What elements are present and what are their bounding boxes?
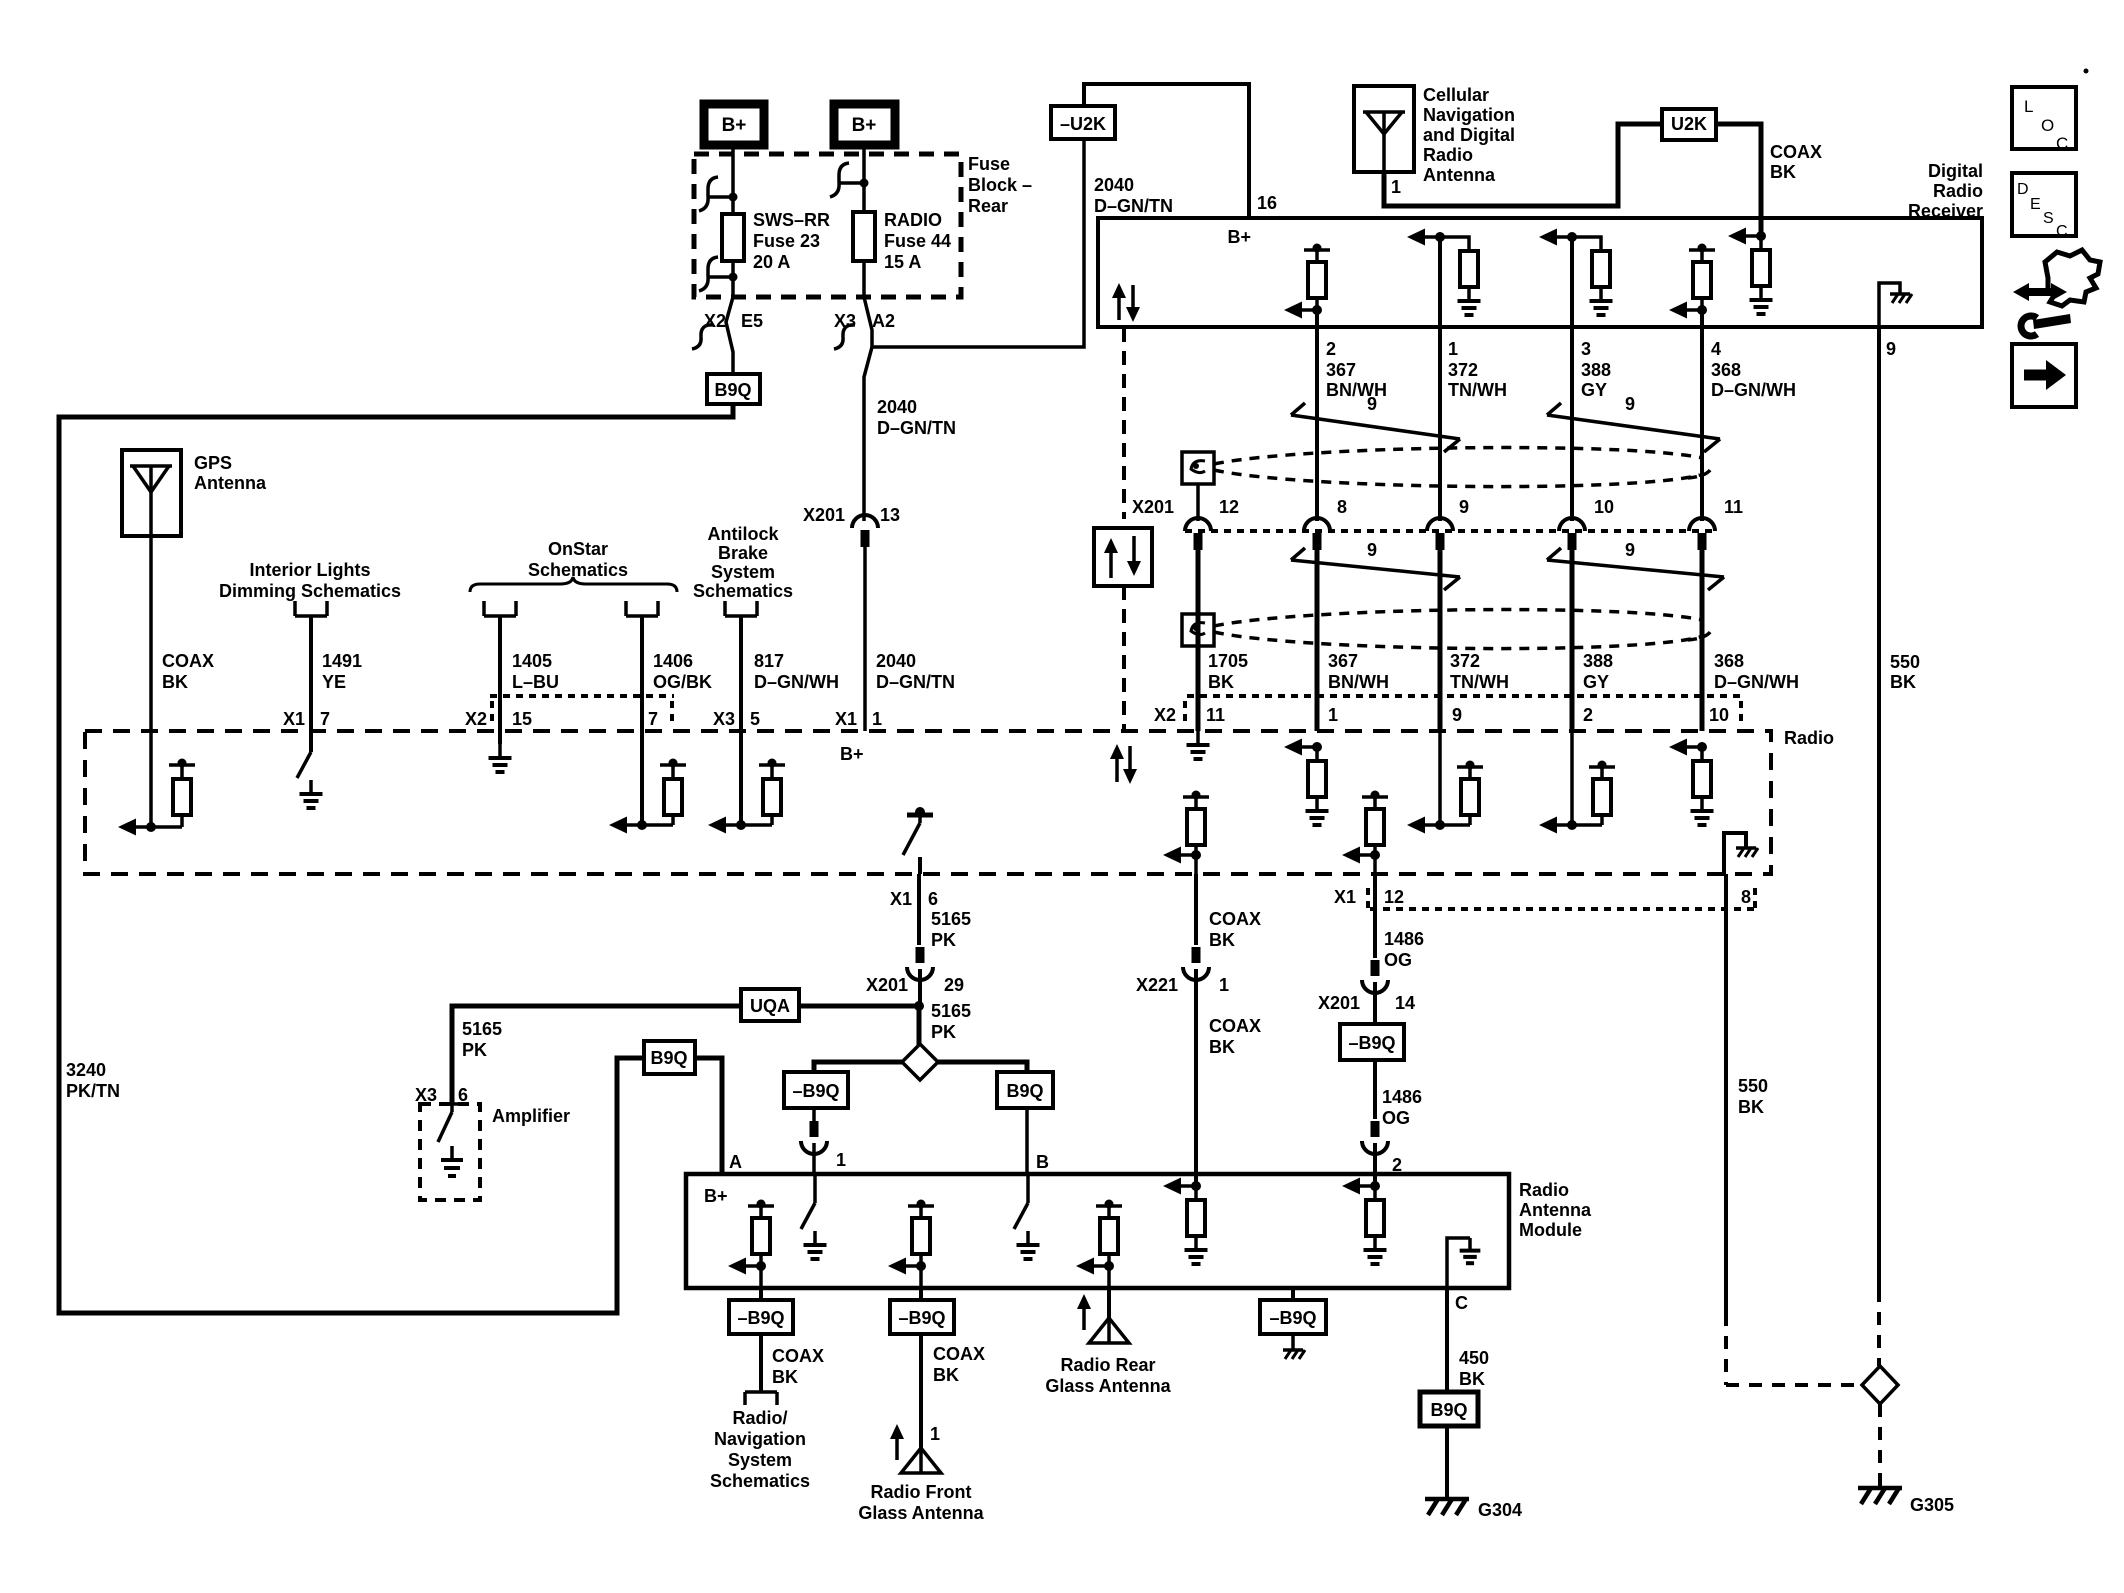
splice diamond G305	[1862, 1366, 1898, 1404]
svg-text:450: 450	[1459, 1348, 1489, 1368]
module resistor rear-glass	[1076, 1200, 1122, 1289]
module switch 1	[801, 1174, 827, 1259]
wire coax radio to X221	[1194, 874, 1198, 945]
wire A2 down to X201-13	[864, 297, 872, 521]
svg-text:D: D	[2017, 181, 2029, 198]
label Radio Navigation System Schematics	[710, 1408, 810, 1491]
receiver internal ground pin 9	[1879, 283, 1912, 327]
X2 connector ticks (left)	[490, 696, 674, 722]
label B+ inside module	[704, 1186, 728, 1206]
svg-text:372: 372	[1450, 651, 1480, 671]
svg-text:Radio/: Radio/	[732, 1408, 787, 1428]
svg-text:B+: B+	[1227, 227, 1251, 247]
svg-text:1491: 1491	[322, 651, 362, 671]
svg-text:COAX: COAX	[772, 1346, 824, 1366]
module resistor front-glass	[888, 1200, 934, 1289]
fuse block rear dashed outline	[694, 154, 961, 297]
svg-text:Radio Rear: Radio Rear	[1060, 1355, 1155, 1375]
svg-text:and Digital: and Digital	[1423, 125, 1515, 145]
svg-text:A2: A2	[872, 311, 895, 331]
svg-text:550: 550	[1738, 1076, 1768, 1096]
label X1 / 1 pins at radio	[835, 709, 882, 729]
svg-text:Schematics: Schematics	[693, 581, 793, 601]
372 termination inside radio	[1407, 731, 1483, 834]
label pin 16	[1257, 193, 1277, 213]
svg-text:1486: 1486	[1382, 1087, 1422, 1107]
label B+ net inside radio	[840, 744, 864, 764]
receiver pin2 internal resistor	[1284, 244, 1330, 319]
svg-text:Amplifier: Amplifier	[492, 1106, 570, 1126]
svg-text:Rear: Rear	[968, 196, 1008, 216]
label 1491 YE	[322, 651, 362, 692]
label 1406 OG/BK	[653, 651, 712, 692]
radio front glass antenna symbol	[901, 1448, 941, 1473]
svg-text:Fuse: Fuse	[968, 154, 1010, 174]
wire B+2 to fuse 44	[862, 145, 866, 212]
wire fuse 44 to X3 A2	[862, 261, 866, 297]
svg-text:9: 9	[1625, 540, 1635, 560]
label Antilock Brake System Schematics	[693, 524, 793, 601]
wire 817 D-GN/WH	[739, 616, 743, 825]
label 372 TN/WH	[1450, 651, 1509, 692]
svg-text:COAX: COAX	[1209, 1016, 1261, 1036]
svg-text:D–GN/WH: D–GN/WH	[754, 672, 839, 692]
svg-text:B9Q: B9Q	[1430, 1400, 1467, 1420]
svg-text:COAX: COAX	[1770, 142, 1822, 162]
label X201 connector row	[1132, 497, 1174, 517]
label X3 / A2 pins	[834, 311, 895, 331]
label COAX BK (GPS)	[162, 651, 214, 692]
net tag B9Q (splice right)	[997, 1072, 1053, 1108]
loc/desc wrench icon	[2013, 250, 2100, 336]
svg-text:10: 10	[1594, 497, 1614, 517]
wire -B9Q nav coax	[759, 1334, 763, 1392]
svg-text:X201: X201	[866, 975, 908, 995]
svg-text:Brake: Brake	[718, 543, 768, 563]
receiver pin3 internal circuit	[1539, 229, 1613, 316]
svg-text:BK: BK	[162, 672, 188, 692]
wire X201-29 to junction	[914, 969, 924, 1011]
coax wire antenna to U2K	[1384, 124, 1662, 206]
label X2 / E5 pins	[704, 311, 763, 331]
wire X2 E5 to B9Q box	[692, 297, 733, 374]
svg-text:GPS: GPS	[194, 453, 232, 473]
wire -U2K up to receiver pin 16	[1084, 84, 1249, 218]
svg-text:5165: 5165	[462, 1019, 502, 1039]
label 817 D-GN/WH	[754, 651, 839, 692]
wire X201-13 to radio X1-1	[863, 547, 867, 731]
svg-text:D–GN/TN: D–GN/TN	[1094, 196, 1173, 216]
label X3 / 5 pins	[713, 709, 760, 729]
label pin 2 367 BN/WH	[1326, 339, 1387, 400]
wire 1405 L-BU	[498, 616, 502, 744]
svg-text:Navigation: Navigation	[1423, 105, 1515, 125]
svg-text:Antenna: Antenna	[1519, 1200, 1592, 1220]
svg-text:O: O	[2041, 116, 2054, 135]
svg-text:BK: BK	[1209, 1037, 1235, 1057]
svg-text:X201: X201	[1318, 993, 1360, 1013]
wire module to -B9Q (front glass)	[919, 1288, 923, 1300]
svg-text:BN/WH: BN/WH	[1326, 380, 1387, 400]
svg-text:SWS–RR: SWS–RR	[753, 210, 830, 230]
wire B9Q to module pin A	[695, 1058, 722, 1174]
wire X221 to module	[1194, 969, 1198, 1186]
label X1 / 7 pins	[283, 709, 330, 729]
wire UQA to X201-29 junction	[799, 1004, 919, 1009]
offpage bracket 1406	[626, 601, 658, 616]
svg-text:L–BU: L–BU	[512, 672, 559, 692]
svg-text:5165: 5165	[931, 1001, 971, 1021]
svg-text:B9Q: B9Q	[714, 380, 751, 400]
svg-text:X2: X2	[704, 311, 726, 331]
svg-text:1: 1	[930, 1424, 940, 1444]
updown arrows inside receiver	[1112, 283, 1140, 322]
svg-text:C: C	[2056, 134, 2068, 153]
LOC icon box	[2012, 87, 2076, 153]
svg-text:12: 12	[1384, 887, 1404, 907]
label Radio Antenna Module	[1519, 1180, 1592, 1240]
connector X201 pin 11	[1689, 497, 1743, 550]
wire UQA junction down to splice	[917, 1006, 922, 1045]
svg-text:Glass Antenna: Glass Antenna	[858, 1503, 984, 1523]
radio dashed box	[85, 731, 1771, 874]
svg-text:368: 368	[1714, 651, 1744, 671]
wire 368 to radio X2-10	[1700, 549, 1705, 731]
label pin 7 (1406)	[648, 709, 658, 729]
svg-text:Glass Antenna: Glass Antenna	[1045, 1376, 1171, 1396]
hook clip below A2	[834, 325, 855, 349]
GPS coax termination in radio	[118, 759, 195, 836]
svg-text:5165: 5165	[931, 909, 971, 929]
label 450 BK	[1459, 1348, 1489, 1389]
label 1486 OG (upper)	[1384, 929, 1424, 970]
label pin 4 368 D-GN/WH	[1711, 339, 1796, 400]
svg-text:TN/WH: TN/WH	[1448, 380, 1507, 400]
hook clip above fuse 44	[830, 163, 869, 197]
svg-text:2: 2	[1583, 705, 1593, 725]
X201 connector dashed line	[1185, 529, 1715, 533]
svg-text:20 A: 20 A	[753, 252, 790, 272]
svg-text:367: 367	[1328, 651, 1358, 671]
wire 388 receiver pin3 to X201-10	[1570, 237, 1574, 521]
svg-text:Radio Front: Radio Front	[871, 1482, 972, 1502]
svg-text:System: System	[728, 1450, 792, 1470]
receiver pin4 internal resistor	[1669, 244, 1715, 319]
1406 termination in radio	[609, 759, 686, 834]
circuit tag B9Q under fuse 23	[707, 374, 760, 404]
wire B9Q to G304	[1445, 1426, 1449, 1497]
svg-text:Schematics: Schematics	[528, 560, 628, 580]
offpage bracket interior lights	[295, 601, 327, 616]
svg-text:–B9Q: –B9Q	[792, 1081, 839, 1101]
svg-text:B+: B+	[840, 744, 864, 764]
svg-text:L: L	[2024, 97, 2033, 116]
label Digital Radio Receiver	[1908, 161, 1983, 221]
svg-text:G305: G305	[1910, 1495, 1954, 1515]
svg-text:PK: PK	[462, 1040, 487, 1060]
label Radio Front Glass Antenna	[858, 1482, 984, 1523]
wire splice left to -B9Q	[814, 1062, 902, 1072]
wire -B9Q to module A-side	[812, 1143, 816, 1174]
fuse F44 RADIO	[853, 212, 875, 261]
svg-text:S: S	[2043, 210, 2054, 227]
svg-text:Radio: Radio	[1933, 181, 1983, 201]
svg-text:1405: 1405	[512, 651, 552, 671]
svg-text:Radio: Radio	[1423, 145, 1473, 165]
svg-text:817: 817	[754, 651, 784, 671]
wire B+1 to fuse 23	[731, 145, 735, 214]
label X1 / 6 pins	[890, 889, 938, 909]
svg-text:16: 16	[1257, 193, 1277, 213]
label 388 GY	[1583, 651, 1613, 692]
shield oval lower	[1214, 610, 1712, 649]
label COAX BK (top right)	[1770, 142, 1822, 182]
svg-text:2: 2	[1326, 339, 1336, 359]
connector X201 pin 8	[1304, 497, 1347, 550]
hook clip above fuse 23	[699, 177, 738, 211]
wire 388 to radio X2-2	[1570, 549, 1575, 731]
svg-text:UQA: UQA	[750, 996, 790, 1016]
connector pin 1 below -B9Q	[801, 1108, 846, 1170]
svg-text:GY: GY	[1581, 380, 1607, 400]
svg-text:B+: B+	[722, 115, 747, 136]
hook clip below fuse 23	[699, 257, 738, 291]
shield drain box upper	[1182, 452, 1214, 484]
label Interior Lights Dimming Schematics	[219, 560, 401, 601]
svg-text:372: 372	[1448, 360, 1478, 380]
label B pin	[1036, 1152, 1049, 1172]
svg-text:System: System	[711, 562, 775, 582]
svg-text:YE: YE	[322, 672, 346, 692]
svg-text:3240: 3240	[66, 1060, 106, 1080]
net tag U2K box	[1662, 109, 1716, 140]
svg-text:1: 1	[1448, 339, 1458, 359]
DESC icon box	[2012, 173, 2076, 240]
svg-text:29: 29	[944, 975, 964, 995]
svg-text:15 A: 15 A	[884, 252, 921, 272]
svg-text:BK: BK	[1209, 930, 1235, 950]
svg-text:Module: Module	[1519, 1220, 1582, 1240]
label Radio Rear Glass Antenna	[1045, 1355, 1171, 1396]
svg-text:–B9Q: –B9Q	[1348, 1033, 1395, 1053]
wire 1705 BK drain to radio X2-11	[1196, 549, 1201, 731]
svg-text:388: 388	[1583, 651, 1613, 671]
svg-text:9: 9	[1452, 705, 1462, 725]
up arrow rear antenna	[1077, 1294, 1091, 1330]
svg-text:7: 7	[648, 709, 658, 729]
coax wire U2K to receiver	[1716, 124, 1761, 232]
amplifier dashed box	[420, 1104, 480, 1200]
label 2040 D-GN/TN (above radio)	[876, 651, 955, 692]
svg-text:11: 11	[1206, 705, 1225, 725]
svg-text:9: 9	[1625, 394, 1635, 414]
svg-text:B+: B+	[852, 115, 877, 136]
svg-text:Cellular: Cellular	[1423, 85, 1489, 105]
svg-text:U2K: U2K	[1671, 114, 1707, 134]
net tag UQA box	[741, 989, 799, 1021]
svg-text:5: 5	[750, 709, 760, 729]
svg-text:GY: GY	[1583, 672, 1609, 692]
connector X201 pin 29	[866, 947, 964, 995]
svg-text:COAX: COAX	[162, 651, 214, 671]
svg-text:G304: G304	[1478, 1500, 1522, 1520]
svg-text:Radio: Radio	[1784, 728, 1834, 748]
svg-text:OnStar: OnStar	[548, 539, 608, 559]
connector X201 pin 10	[1559, 497, 1614, 550]
svg-text:14: 14	[1395, 993, 1415, 1013]
receiver pin1 internal circuit	[1407, 229, 1481, 316]
svg-text:BK: BK	[1208, 672, 1234, 692]
svg-text:11: 11	[1724, 497, 1743, 517]
shield drain box lower	[1182, 614, 1214, 646]
brace OnStar	[470, 577, 677, 592]
label X2 row pins	[1154, 705, 1729, 725]
svg-text:550: 550	[1890, 652, 1920, 672]
svg-text:Navigation: Navigation	[714, 1429, 806, 1449]
wire X1-6 5165 PK	[917, 874, 921, 945]
GPS antenna box	[122, 450, 181, 536]
svg-text:–B9Q: –B9Q	[737, 1308, 784, 1328]
net tag -B9Q (nav output)	[729, 1300, 793, 1334]
label 1486 OG (lower)	[1382, 1087, 1422, 1128]
wire branch A2 to -U2K	[872, 139, 1084, 347]
svg-text:B9Q: B9Q	[1006, 1081, 1043, 1101]
wire module to -B9Q (nav)	[759, 1288, 763, 1300]
svg-text:1: 1	[1328, 705, 1338, 725]
svg-text:PK: PK	[931, 930, 956, 950]
svg-text:–B9Q: –B9Q	[1269, 1308, 1316, 1328]
module coax termination	[1163, 1178, 1208, 1265]
coax output resistor inside radio	[1163, 791, 1209, 875]
svg-text:PK/TN: PK/TN	[66, 1081, 120, 1101]
label COAX BK (upper)	[1209, 909, 1261, 950]
817 termination in radio	[708, 759, 785, 834]
svg-text:1705: 1705	[1208, 651, 1248, 671]
svg-text:1: 1	[872, 709, 882, 729]
connector X201 pin 13	[803, 505, 900, 547]
label receiver pin 9	[1886, 339, 1896, 359]
connector X2 row dashes	[1185, 696, 1741, 722]
label 550 BK (right)	[1890, 652, 1920, 692]
label 3240 PK/TN	[66, 1060, 120, 1101]
wire shield box to X201-12	[1196, 484, 1200, 521]
wire module to -B9Q (shield)	[1291, 1288, 1295, 1300]
wire B9Q to module B pin	[1025, 1108, 1029, 1174]
svg-text:Schematics: Schematics	[710, 1471, 810, 1491]
wire splice right to B9Q	[938, 1062, 1027, 1072]
twist symbol 9 (right, row1)	[1547, 394, 1720, 452]
svg-text:1486: 1486	[1384, 929, 1424, 949]
svg-text:E5: E5	[741, 311, 763, 331]
label 1405 L-BU	[512, 651, 559, 692]
label GPS Antenna	[194, 453, 267, 493]
svg-text:12: 12	[1219, 497, 1239, 517]
wire B9Q tag down-left 3240 PK/TN run	[59, 404, 733, 1313]
module internal ground C	[1447, 1238, 1480, 1288]
label pin 1 (front antenna)	[930, 1424, 940, 1444]
svg-text:1: 1	[836, 1150, 846, 1170]
label 5165 PK (lower)	[931, 1001, 971, 1042]
svg-text:C: C	[2056, 223, 2068, 240]
label SWS-RR Fuse 23 20 A	[753, 210, 830, 272]
up arrow front antenna	[890, 1424, 904, 1460]
svg-text:9: 9	[1367, 540, 1377, 560]
radio antenna module box	[686, 1174, 1509, 1288]
power feed B+ box 1	[704, 104, 764, 145]
module 1486 termination	[1342, 1178, 1387, 1265]
label X3 / 6 pins (amplifier)	[415, 1085, 468, 1105]
svg-text:X221: X221	[1136, 975, 1178, 995]
wire fuse 23 to X2 E5	[731, 261, 735, 297]
svg-text:RADIO: RADIO	[884, 210, 942, 230]
label pin 1 372 TN/WH	[1448, 339, 1507, 400]
receiver coax input internal circuit	[1728, 228, 1773, 315]
offpage bracket 1405	[484, 601, 516, 616]
svg-text:Interior Lights: Interior Lights	[250, 560, 371, 580]
cellular navigation and digital radio antenna box	[1354, 86, 1414, 172]
tiny mark top right	[2084, 69, 2089, 74]
svg-text:A: A	[729, 1152, 742, 1172]
right arrow icon box	[2012, 344, 2076, 407]
svg-text:Antenna: Antenna	[1423, 165, 1496, 185]
svg-text:4: 4	[1711, 339, 1721, 359]
svg-text:OG: OG	[1382, 1108, 1410, 1128]
svg-text:BK: BK	[1890, 672, 1916, 692]
svg-text:B9Q: B9Q	[650, 1048, 687, 1068]
connector pin 2 at module	[1362, 1121, 1402, 1175]
svg-text:367: 367	[1326, 360, 1356, 380]
wire module to rear glass antenna	[1107, 1288, 1111, 1318]
connector X201 pin 12	[1185, 497, 1239, 550]
svg-text:13: 13	[880, 505, 900, 525]
wire UQA to amplifier	[441, 1006, 741, 1104]
svg-text:9: 9	[1367, 394, 1377, 414]
svg-text:COAX: COAX	[933, 1344, 985, 1364]
svg-text:2040: 2040	[877, 397, 917, 417]
svg-text:Fuse 44: Fuse 44	[884, 231, 951, 251]
label 2040 D-GN/TN (at -U2K)	[1094, 175, 1173, 216]
svg-text:E: E	[2030, 196, 2041, 213]
label 1705 BK	[1208, 651, 1248, 692]
svg-text:Dimming Schematics: Dimming Schematics	[219, 581, 401, 601]
svg-text:BK: BK	[933, 1365, 959, 1385]
label 5165 PK (upper)	[931, 909, 971, 950]
wire -B9Q front coax	[919, 1334, 923, 1448]
svg-text:8: 8	[1741, 887, 1751, 907]
svg-text:BK: BK	[1459, 1369, 1485, 1389]
label COAX BK (front)	[933, 1344, 985, 1385]
svg-text:PK: PK	[931, 1022, 956, 1042]
radio rear glass antenna symbol	[1089, 1318, 1129, 1343]
label COAX BK (nav)	[772, 1346, 824, 1387]
shield oval upper	[1214, 448, 1712, 487]
svg-text:Fuse 23: Fuse 23	[753, 231, 820, 251]
net tag B9Q (left path)	[644, 1041, 695, 1074]
svg-text:X3: X3	[713, 709, 735, 729]
label RADIO Fuse 44 15 A	[884, 210, 951, 272]
svg-text:X1: X1	[283, 709, 305, 729]
wire pin2 to module	[1373, 1143, 1377, 1186]
wire -B9Q 1486 down	[1373, 1060, 1377, 1119]
svg-text:COAX: COAX	[1209, 909, 1261, 929]
svg-text:–U2K: –U2K	[1060, 114, 1106, 134]
label COAX BK (lower)	[1209, 1016, 1261, 1057]
svg-text:1: 1	[1391, 177, 1401, 197]
label 367 BN/WH	[1328, 651, 1389, 692]
radio switch to X1-6	[903, 807, 933, 874]
svg-text:9: 9	[1459, 497, 1469, 517]
svg-text:2040: 2040	[876, 651, 916, 671]
